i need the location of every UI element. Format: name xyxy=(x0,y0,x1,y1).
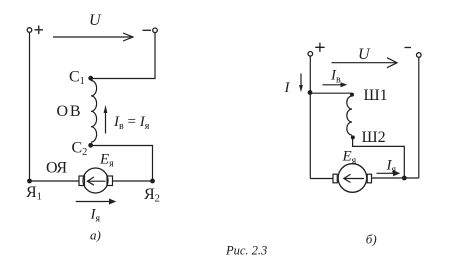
wire bottom left to brush xyxy=(30,180,80,182)
svg-text:Iв: Iв xyxy=(330,68,341,86)
node C2 dot xyxy=(88,143,93,148)
minus sign label (circuit b) xyxy=(405,47,412,49)
coil top dot xyxy=(350,93,354,97)
svg-text:С2: С2 xyxy=(72,139,88,158)
svg-text:С1: С1 xyxy=(69,69,85,88)
armature arrow (circuit b) xyxy=(345,178,365,180)
svg-text:а): а) xyxy=(90,228,101,243)
terminal plus (circuit a) xyxy=(27,28,32,33)
wire coil bottom right and down xyxy=(353,137,405,178)
brush right (circuit b) xyxy=(367,174,371,183)
svg-text:Iв = Iя: Iв = Iя xyxy=(113,114,150,132)
wire right brush to right vertical (circuit b) xyxy=(372,177,419,179)
arrow U (circuit a) xyxy=(53,36,133,38)
node Ya2 dot xyxy=(150,179,155,184)
svg-text:ОВ: ОВ xyxy=(57,103,83,120)
svg-text:Ш2: Ш2 xyxy=(362,129,386,146)
svg-text:Я2: Я2 xyxy=(144,186,160,205)
brush left (circuit a) xyxy=(79,176,85,186)
svg-text:Iя: Iя xyxy=(90,207,101,225)
terminal minus (circuit b) xyxy=(417,53,422,58)
svg-text:ОЯ: ОЯ xyxy=(46,159,67,176)
node C1 dot xyxy=(88,76,93,81)
terminal minus (circuit a) xyxy=(153,28,158,33)
plus sign label (circuit b) xyxy=(315,43,324,52)
minus sign label xyxy=(143,29,152,31)
junction dot on brush wire (circuit b) xyxy=(402,176,407,181)
svg-text:Рис. 2.3: Рис. 2.3 xyxy=(225,243,267,257)
node Ya1 dot xyxy=(27,179,32,184)
wire left vertical (circuit a) xyxy=(29,32,31,181)
armature circle (circuit a) xyxy=(83,168,108,193)
arrow Iv up (circuit a) xyxy=(105,110,107,134)
brush right (circuit a) xyxy=(107,176,113,186)
wire brush to Ya2 xyxy=(113,180,153,182)
svg-text:Iя: Iя xyxy=(386,158,397,176)
armature arrow (circuit a) xyxy=(88,180,106,182)
wire left vertical (circuit b) xyxy=(309,56,311,178)
svg-text:Eя: Eя xyxy=(99,152,114,170)
svg-text:б): б) xyxy=(366,232,377,247)
svg-text:I: I xyxy=(284,80,291,96)
brush left (circuit b) xyxy=(333,174,337,183)
junction dot (circuit b) xyxy=(308,90,313,95)
arrow I down (circuit b) xyxy=(300,74,302,88)
svg-text:Я1: Я1 xyxy=(26,184,42,203)
wire junction to coil top xyxy=(310,92,352,94)
svg-text:Ш1: Ш1 xyxy=(364,87,388,104)
wire from C2 right and down to Ya2 xyxy=(91,146,153,182)
arrow Iv (circuit b) xyxy=(323,84,342,86)
wire from minus terminal down and left to C1 xyxy=(91,33,155,79)
arrow Iya (circuit b) xyxy=(377,172,395,174)
wire left brush (circuit b) xyxy=(310,178,333,180)
plus sign label xyxy=(35,26,44,35)
terminal plus (circuit b) xyxy=(308,52,313,57)
arrow U (circuit b) xyxy=(332,62,397,64)
wire right vertical (circuit b) xyxy=(418,57,420,178)
coil bottom dot xyxy=(351,135,355,139)
svg-text:U: U xyxy=(89,12,102,29)
svg-text:Eя: Eя xyxy=(342,149,357,167)
svg-text:U: U xyxy=(358,46,371,63)
armature circle (circuit b) xyxy=(338,164,367,193)
arrow Iya (circuit a) xyxy=(76,201,110,203)
inductor Sh winding (circuit b) xyxy=(347,96,352,135)
inductor OV field winding (circuit a) xyxy=(91,81,97,143)
